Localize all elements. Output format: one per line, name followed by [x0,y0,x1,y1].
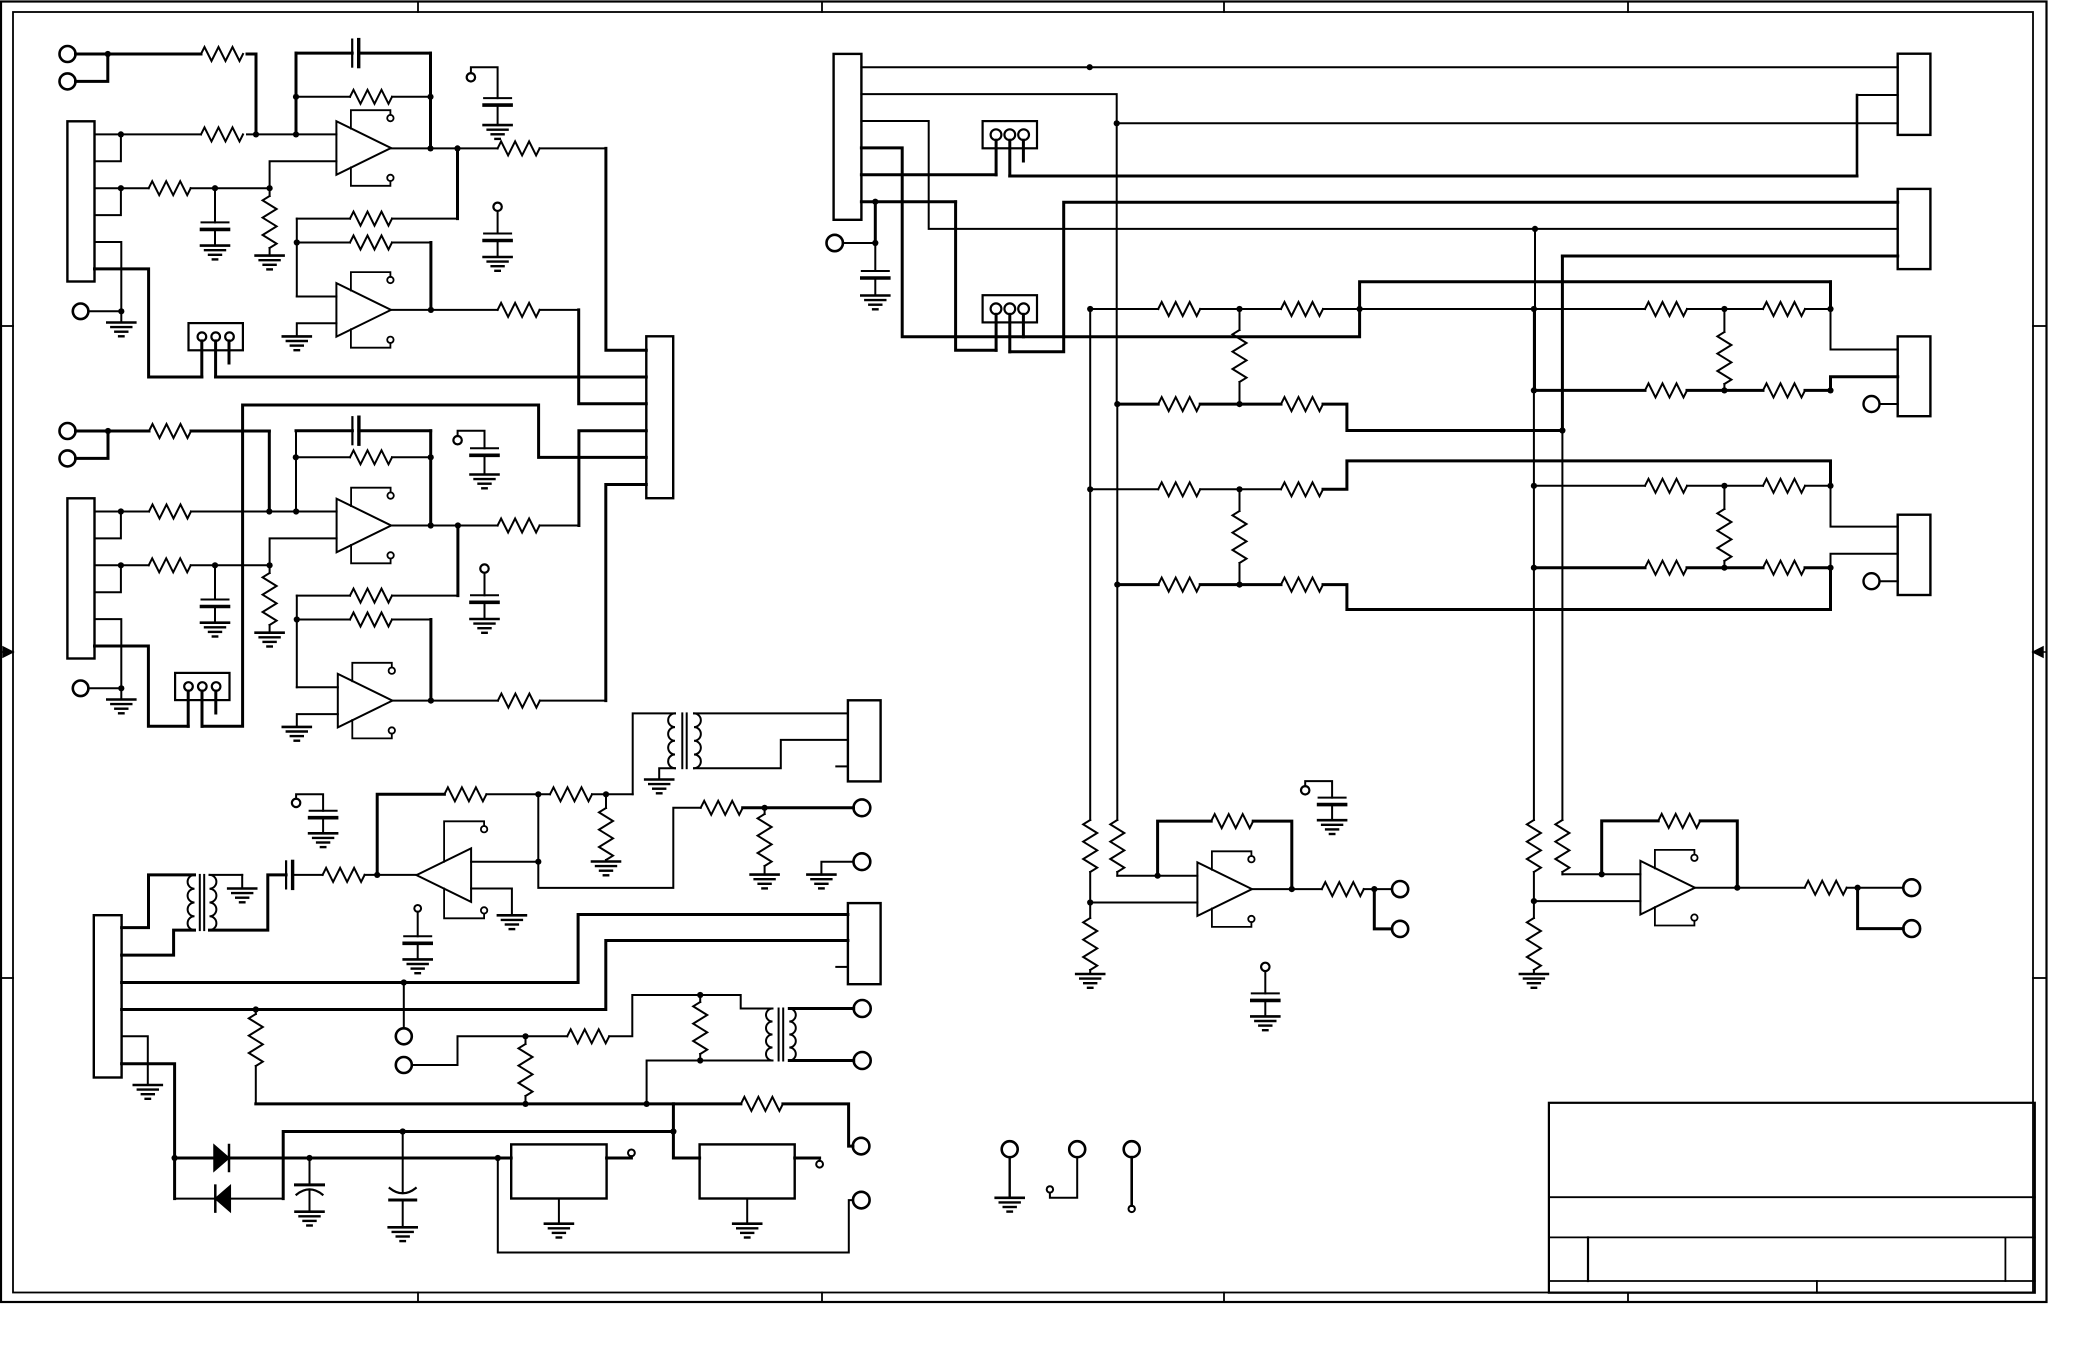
ground [404,958,432,961]
regulator U6 [700,1144,795,1198]
connector MUX1 [646,336,673,498]
wire [1687,308,1763,310]
jack J9A [854,1000,871,1017]
resistor R63 [1645,383,1687,397]
wire right mesh row R3 [1534,485,1645,487]
node T3A [697,992,703,998]
node FB2A [293,454,299,460]
wire [1117,875,1197,877]
node [1532,226,1538,232]
wire [296,219,298,297]
resistor R40 [525,1036,527,1044]
capacitor C24 [471,594,498,596]
wire T3 secondary bottom [789,1059,853,1062]
node SHIELD2 [118,685,124,691]
wire U5 ground tab [558,1199,560,1224]
resistor R72 vertical [1089,903,1091,919]
node [1087,64,1093,70]
wire T1 secondary bottom [210,875,287,930]
wire [293,874,323,876]
resistor R28 [392,595,458,597]
wire [1253,821,1292,889]
wire J7 pin3 to K2 pin2 [861,121,1897,229]
capacitor C33 [404,935,431,937]
resistor R73 vertical [1110,820,1124,872]
capacitor C41 [874,243,876,271]
node [535,859,541,865]
regulator U5 [511,1144,606,1198]
wire [412,1036,526,1065]
node [1371,886,1377,892]
jack J10B [853,1192,870,1209]
jumper JP1 [189,323,243,350]
wire J5 pin3 stub [836,765,848,767]
wire [1829,282,1832,309]
resistor R34 [605,794,607,808]
resistor R23 feedback [296,456,350,458]
resistor R51 [1158,302,1200,316]
resistor R62 vertical [1239,489,1241,511]
connector K2 [1898,189,1931,269]
wire [1116,123,1118,404]
wire K4 pin1 [1831,486,1898,527]
node SHIELD1 [118,308,124,314]
ground [120,688,122,699]
node IN2 [105,428,111,434]
wire JA pin1 [995,140,998,175]
wire to headphone amp [538,808,700,888]
jack J1B [73,304,89,320]
ground [471,473,499,476]
title block [1549,1103,2035,1293]
wire K3 pin2 [1831,377,1898,391]
resistor R56 [1281,397,1323,411]
wire [296,596,298,688]
ground [1076,973,1104,976]
wire U8 -input [1534,900,1641,902]
wire U8 output [1695,887,1805,889]
wire J3 pin5 to ground [122,1036,148,1085]
node [1734,885,1740,891]
resistor R36 [764,808,766,814]
wire U2B output [392,700,498,702]
wire J3 pin2 to T1 [122,930,195,955]
wire J3 pin6 to rectifier [122,1064,175,1158]
wire [1200,583,1281,586]
wire right mesh row R4 [1534,566,1645,569]
wire [673,1102,741,1105]
pin P3 [453,436,461,444]
resistor R10 [498,303,540,317]
ground [484,124,512,127]
node [1559,427,1565,433]
capacitor C31 [310,810,337,812]
wire mesh row L2 [1117,403,1158,406]
wire K4 pin2 [1831,554,1898,568]
wire [429,53,432,148]
wire [956,202,997,351]
wire [295,431,297,512]
wire line out jack A [403,983,405,1029]
wire U8 feedback [1602,821,1659,874]
resistor R77 vertical [1533,901,1535,918]
resistor R41 [741,1097,783,1111]
node FB2B [428,454,434,460]
wire T1 secondary top to ground [210,874,243,876]
op-amp U3 [417,848,472,902]
jack J8B [396,1057,412,1073]
node [670,1128,676,1134]
op-amp U1A [336,121,391,175]
transformer T1 core [199,875,201,930]
resistor R66 [1645,479,1687,493]
node FB2C [294,616,300,622]
wire JB pin2 [1008,314,1011,352]
wire [1089,309,1091,489]
ground [1318,819,1346,822]
wire U6 output pin [795,1157,820,1160]
ground [751,873,779,876]
wire U7 output [1252,888,1322,890]
pin P7 [628,1150,635,1157]
node [1155,873,1161,879]
wire T2 bottom-left lead [659,768,675,779]
wire [537,794,539,861]
wire [1533,568,1535,820]
wire JB pin1 [995,314,998,350]
resistor R74 feedback [1211,814,1253,828]
pin P6 [414,905,421,912]
connector J1 [67,121,94,281]
wire [1805,485,1831,487]
right border arrow [2033,647,2047,657]
wire to K1 [1117,122,1898,124]
ground [283,335,311,338]
jack J15A [1392,881,1408,897]
wire U3 +input [471,861,538,863]
ground [861,294,889,297]
wire [1533,486,1535,568]
wire JB pin2 to K2 pin1 [1010,202,1898,351]
pin P10 [1129,1206,1135,1212]
wire [1200,488,1281,490]
resistor R1 [201,47,243,61]
resistor R69 [1763,561,1805,575]
wire [1561,256,1564,431]
wire JA pin2 long row [1010,175,1857,178]
ground [228,887,256,890]
wire J3 pin1 to T1 [122,875,195,928]
wire JP2 pin3 stub [214,691,217,713]
jack J8A [396,1028,412,1044]
wire J1 pin4 [95,188,121,215]
wire [1050,1157,1077,1198]
wire J2 pin5 [95,619,122,688]
jack J9B [854,1052,871,1069]
node [1087,899,1093,905]
wire negative to jack J10B [498,1158,853,1253]
wire T2 secondary bottom to J5 [694,740,848,768]
pin P9 [1047,1186,1053,1192]
resistor R54 [1763,302,1805,316]
resistor R25 [149,558,191,572]
node FB3 [535,791,541,797]
capacitor C7 polarized [309,1158,311,1185]
wire T3 primary top lead [700,995,772,1009]
resistor R26 [269,565,271,573]
wire [821,862,853,875]
connector J6 [848,903,881,984]
wire [1700,821,1737,888]
wire K2 pin3 row [1562,255,1897,258]
wire [1533,309,1535,390]
node [1357,306,1363,312]
pin P14 [1261,963,1269,971]
wire T3 secondary top [789,1007,853,1010]
resistor R2 [201,127,243,141]
wire J7 pin2 [861,94,1116,123]
jumper JB [983,295,1037,322]
wire [173,1158,176,1199]
wire [672,1104,675,1132]
wire [268,431,271,512]
wire [526,1035,568,1037]
wire [1805,308,1831,310]
resistor R6 [269,188,271,196]
node VOL [603,791,609,797]
jack J14 [827,235,843,251]
node T3B [697,1057,703,1063]
jack J16B [1903,920,1920,937]
transformer T2 core [681,713,683,768]
node FB1B [427,94,433,100]
connector J5 [848,700,881,781]
wire J1 pin6 to JP1 [95,269,202,377]
node [1289,886,1295,892]
wire inverting input U1A [270,161,337,188]
wire [1323,308,1534,310]
capacitor C22 [214,565,216,599]
wire U7 feedback [1158,821,1212,876]
wire J7 pin5 to JA pin1 [861,173,996,176]
jumper JA [983,121,1037,148]
wire [1805,566,1831,569]
jack J2A sleeve [60,450,76,466]
capacitor C3 [484,97,511,99]
resistor R9 [297,242,350,244]
jack J10A [853,1138,870,1155]
resistor R8 [392,218,458,220]
wire bus to U6 [673,1132,699,1159]
transformer T3 secondary [789,1009,796,1061]
wire [456,526,459,596]
wire [1687,389,1763,392]
resistor R58 [1158,482,1200,496]
wire U6 ground tab [746,1199,748,1224]
jack J15B [1392,921,1408,937]
capacitor C32 [285,861,287,888]
wire J7 pin4 to mesh [861,148,1830,337]
jack J1A sleeve [60,73,76,89]
node [306,1155,312,1161]
pin P11 [1864,396,1880,412]
wire to MUX pin3 [579,310,647,404]
resistor R33 [550,787,592,801]
ground [733,1222,761,1225]
wire [1200,403,1281,406]
wire [429,243,432,310]
wire JA pin2 [1008,140,1011,176]
node [522,1101,528,1107]
wire K1 step [1857,94,1898,96]
connector K1 [1898,54,1931,135]
wire to jack J10A [783,1104,853,1146]
wire U3 -input [471,889,512,916]
node [400,1128,406,1134]
capacitor C42 [1319,797,1346,799]
resistor R70 vertical [1723,486,1725,509]
wire right mesh row R2 [1534,389,1645,392]
wire [1116,404,1118,584]
node HP1 [762,805,768,811]
ground [201,621,229,624]
connector J7 [834,54,862,220]
node [872,199,878,205]
wire to MUX pin1 [606,148,646,350]
transformer T2 secondary [694,713,701,768]
wire JP2 pin2 [201,691,204,726]
connector J3 [94,915,122,1077]
node [253,1006,259,1012]
wire [108,53,201,56]
wire [1534,229,1536,391]
capacitor C2 [214,188,216,222]
wire negative rail [283,1132,673,1199]
wire [1200,308,1281,310]
ground [256,631,284,634]
op-amp U2A [337,499,392,553]
ground [389,1226,417,1229]
resistor R53 [1645,302,1687,316]
capacitor C4 [484,233,511,235]
resistor R80 [1805,881,1847,895]
pin P2 [493,203,501,211]
node [1531,898,1537,904]
ground [256,254,284,257]
wire [1089,489,1091,820]
node [522,1033,528,1039]
wire [1562,873,1640,875]
wire J2 pin6 to JP2 [95,646,189,726]
node FB1A [293,94,299,100]
capacitor C21 feedback [296,429,352,432]
resistor R57 vertical [1239,309,1241,330]
resistor R76 vertical [1527,820,1541,872]
pin P4 [480,564,488,572]
wire bus2 to J6 pin2 [122,941,848,1010]
node rectifier input [172,1155,178,1161]
wire J1 pin2 [95,134,121,161]
jack J12 [1069,1141,1085,1157]
resistor R55 [1158,397,1200,411]
wire [1561,431,1563,821]
ground [1251,1015,1279,1018]
wire U2B -input [297,714,338,727]
pin P5 [292,799,300,807]
wire J6 pin3 stub [836,966,848,968]
resistor R64 [1763,383,1805,397]
capacitor C23 [471,447,498,449]
resistor R31 [323,868,365,882]
wire [255,54,258,134]
resistor R60 [1158,578,1200,592]
connector K3 [1898,336,1931,416]
wire [230,1198,283,1200]
wire J1 pin1 [95,133,202,135]
wire [1687,485,1763,487]
diode D1 [175,1157,214,1160]
node [1855,885,1861,891]
resistor R35 [701,801,743,815]
wire T3 return [647,1061,701,1104]
wire [1116,585,1118,820]
pin P12 [1864,573,1880,589]
jumper JP2 [175,673,229,700]
node [644,1101,650,1107]
op-amp U2B [338,674,393,728]
resistor R32 [444,787,486,801]
transformer T3 primary [766,1009,772,1061]
wire U1A output [391,147,498,149]
wire [1687,566,1763,569]
wire [108,430,149,433]
wire U7 -input [1090,902,1197,904]
wire [1805,389,1831,392]
wire J7 pin1 to K1 pin1 [861,66,1897,68]
resistor R27 [498,519,540,533]
pin P8 [816,1161,823,1168]
ground [201,244,229,247]
op-amp U1B [336,283,391,337]
wire J1 pin3 [95,187,149,189]
node U3 output [374,872,380,878]
wire mesh row L3 [1090,488,1158,490]
ground [545,1222,573,1225]
jack J1A tip [60,46,76,62]
pin P1 [467,73,475,81]
ground [283,726,311,729]
wire J2 pin2 [95,512,121,539]
diode D2 [175,1198,216,1200]
wire U1B +input [297,296,337,298]
wire K3 pin1 [1831,309,1898,350]
node [1599,871,1605,877]
resistor R75 [1322,882,1364,896]
wire U5 output pin [607,1157,632,1160]
wire to right mesh ch2 [1323,461,1831,489]
wire U1B -input [297,323,337,336]
ground [309,832,337,835]
resistor R59 [1281,482,1323,496]
ground [807,873,835,876]
pin P13 [1301,786,1309,794]
wire [1323,568,1831,610]
node IN1 [105,51,111,57]
wire JP1 pin2 to MUX pin2 [216,376,647,379]
node [1114,120,1120,126]
resistor R29 [297,619,350,621]
ground [996,1197,1024,1200]
